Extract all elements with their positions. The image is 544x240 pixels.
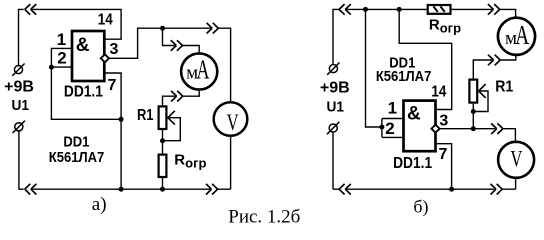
- chevron double-left on bottom rail: [25, 184, 37, 195]
- chevron double-right top rail (b): [488, 4, 500, 15]
- wire: pin14 route (b): [399, 9, 452, 109]
- svg-text:а): а): [92, 194, 107, 215]
- svg-text:+9В: +9В: [320, 80, 350, 97]
- wire: V bottom to rail (b): [515, 179, 517, 190]
- junction node feedback/pin7: [119, 117, 124, 122]
- svg-text:2: 2: [385, 119, 394, 138]
- chevron double-left bottom rail (b): [339, 184, 351, 195]
- wire: output pin3 to V meter (b): [440, 129, 516, 142]
- svg-text:&: &: [76, 35, 90, 56]
- resistor R1 (b): [469, 80, 477, 103]
- chevron double-right output (b): [491, 123, 503, 134]
- svg-text:14: 14: [431, 83, 446, 100]
- svg-text:R1: R1: [137, 107, 154, 124]
- junction node R1 wiper (b): [471, 109, 476, 114]
- wire: R1 bottom through dot to Rogr top: [162, 130, 164, 154]
- resistor Rogr horizontal (b): [428, 5, 451, 14]
- meter V (a): [214, 102, 248, 136]
- junction node top rail 2 (b): [397, 7, 402, 12]
- svg-text:DD1: DD1: [63, 133, 89, 150]
- output inversion diamond pin3 (b): [431, 125, 439, 133]
- chevron double-right on mA-R1 link: [171, 91, 183, 102]
- junction node Rogr/rail: [160, 187, 165, 192]
- junction node input tie (b): [379, 125, 384, 130]
- chevron double-right on output rail: [207, 23, 219, 34]
- wire: battery plus riser and top rail to Rogr (b): [333, 9, 427, 64]
- resistor Rogr (a): [159, 155, 167, 177]
- svg-text:7: 7: [108, 77, 117, 94]
- junction node pin7/rail (b): [449, 187, 454, 192]
- svg-text:1: 1: [388, 99, 397, 118]
- wire: bottom rail: [19, 188, 231, 190]
- gate DD1.1 body: [72, 31, 104, 81]
- svg-text:К561ЛА7: К561ЛА7: [49, 149, 105, 166]
- svg-text:3: 3: [439, 112, 448, 129]
- wire: gate output to top node rail: [109, 28, 231, 102]
- junction node R1 wiper: [160, 138, 165, 143]
- terminal plus (a): [12, 64, 24, 76]
- svg-text:А: А: [515, 20, 529, 50]
- meter mA (a): [181, 53, 217, 89]
- wire: node down and right into mA top: [163, 28, 200, 53]
- svg-text:+9В: +9В: [4, 79, 34, 96]
- R1 wiper arrowhead (b): [479, 84, 486, 98]
- wire: pin7 route (b): [436, 144, 452, 190]
- wire: mA bottom to R1 top: [163, 90, 200, 106]
- svg-text:14: 14: [98, 11, 113, 28]
- chevron double-left on top rail: [25, 4, 37, 15]
- wire: input riser from top rail (b): [366, 9, 382, 127]
- wire: V meter bottom to rail: [230, 136, 232, 189]
- svg-text:V: V: [510, 146, 522, 171]
- R1 wiper arrowhead: [168, 111, 175, 125]
- wire: input tie and stubs (b): [382, 119, 404, 138]
- terminal minus (a): [13, 121, 25, 133]
- resistor R1 (a): [159, 106, 167, 129]
- wire: battery minus down to bottom rail: [18, 131, 20, 189]
- junction node on output rail: [160, 26, 165, 31]
- svg-text:R1: R1: [495, 78, 513, 95]
- svg-text:1: 1: [57, 30, 66, 49]
- svg-text:Рис. 1.2б: Рис. 1.2б: [228, 207, 300, 228]
- svg-text:2: 2: [57, 48, 66, 67]
- svg-text:V: V: [227, 110, 239, 135]
- chevron double-right mA-R1 link (b): [488, 55, 500, 66]
- svg-text:DD1.1: DD1.1: [64, 84, 103, 101]
- svg-text:DD1.1: DD1.1: [393, 155, 432, 172]
- chevron double-left top rail (b): [339, 4, 351, 15]
- wire: pin7 route to bottom rail: [104, 73, 121, 189]
- junction node output/R1 (b): [471, 126, 476, 131]
- meter V (b): [498, 142, 534, 178]
- wire: battery minus to rail (b): [332, 132, 334, 189]
- chevron double-right bottom rail (b): [491, 184, 503, 195]
- wire: bottom rail (b): [333, 188, 516, 190]
- wire: mA bottom to R1 top (b): [473, 55, 516, 79]
- wire: input tie pins 1-2 and feedback to pin7 riser: [51, 48, 121, 119]
- wire: Rogr bottom to rail: [162, 178, 164, 189]
- chevron double-right on mA feed: [171, 40, 183, 51]
- meter mA (b): [498, 18, 535, 55]
- slash marks inside Rogr (b): [433, 6, 444, 12]
- svg-text:А: А: [197, 54, 210, 84]
- wire: R1 wiper to lower node: [163, 118, 181, 141]
- wire: battery plus riser and top rail to pin14 corner: [19, 9, 122, 65]
- svg-text:б): б): [413, 196, 428, 217]
- terminal plus (b): [327, 63, 339, 75]
- junction node pin7/rail: [119, 187, 124, 192]
- svg-text:U1: U1: [11, 97, 29, 114]
- terminal minus (b): [327, 122, 339, 134]
- wire: R1 wiper to node (b): [473, 91, 488, 112]
- wire: R1 bottom to output junction (b): [472, 104, 474, 129]
- output inversion diamond pin3: [101, 54, 109, 62]
- wire: top rail Rogr to mA (b): [452, 9, 516, 17]
- svg-text:К561ЛА7: К561ЛА7: [376, 68, 432, 85]
- svg-text:3: 3: [110, 41, 119, 58]
- svg-text:7: 7: [439, 146, 448, 163]
- junction node top rail 1 (b): [363, 7, 368, 12]
- junction node input tie: [49, 65, 54, 70]
- chevron double-right on bottom rail: [206, 184, 218, 195]
- svg-text:U1: U1: [326, 99, 344, 116]
- svg-text:&: &: [407, 104, 421, 125]
- gate DD1.1 body (b): [404, 101, 436, 152]
